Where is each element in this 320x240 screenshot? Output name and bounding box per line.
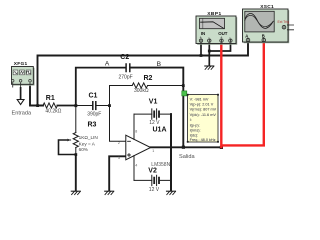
pin number 4 — [135, 163, 137, 167]
wire bode plotter IN- to ground — [208, 43, 210, 66]
svg-text:R3: R3 — [88, 121, 97, 128]
svg-text:I(rms):: I(rms): — [190, 129, 201, 133]
svg-text:B: B — [262, 33, 265, 38]
svg-text:3: 3 — [118, 156, 120, 160]
svg-text:R2: R2 — [144, 75, 153, 82]
wire op-amp output — [151, 146, 222, 148]
node label A — [105, 61, 110, 68]
wire non-inverting input to ground — [109, 156, 126, 190]
oscilloscope XSC1 — [243, 4, 295, 43]
capacitor C1 — [76, 102, 110, 110]
ground under R3 — [71, 191, 80, 194]
junction IN- jumper — [208, 50, 211, 53]
ground under bode plotter — [205, 66, 214, 69]
red wire bode OUT+ to output to scope B — [221, 43, 263, 148]
svg-text:Entrada: Entrada — [12, 111, 32, 117]
label R3 — [88, 121, 97, 128]
svg-text:I(p-p):: I(p-p): — [190, 123, 200, 127]
capacitor C2 — [126, 64, 130, 72]
wire inverting input — [110, 106, 126, 142]
svg-text:I:: I: — [190, 118, 192, 122]
svg-text:12 V: 12 V — [149, 120, 160, 126]
value C2 — [119, 74, 133, 80]
svg-text:60%: 60% — [79, 147, 88, 152]
node label B — [157, 61, 162, 68]
wire bode plotter OUT- jumper to IN- — [209, 43, 230, 52]
label U1A — [153, 126, 167, 133]
label Salida — [179, 154, 195, 160]
resistor R1 — [43, 103, 57, 108]
junction IN+ on input wire — [200, 54, 203, 57]
resistor R2 — [110, 83, 184, 106]
svg-text:B: B — [157, 61, 162, 68]
potentiometer R3 — [59, 106, 79, 155]
function generator XFG1 — [11, 61, 34, 87]
value R2 — [134, 88, 149, 94]
svg-text:390pF: 390pF — [87, 112, 101, 118]
svg-text:1: 1 — [152, 149, 154, 153]
value LM358N — [151, 162, 170, 168]
label C2 — [120, 54, 129, 61]
value V2 — [149, 187, 160, 193]
svg-text:V(p-p): 2.01 V: V(p-p): 2.01 V — [190, 103, 214, 107]
junction R2 right at node B — [182, 84, 185, 87]
svg-text:12 V: 12 V — [149, 187, 160, 193]
wire supply rail to ground — [170, 114, 172, 190]
svg-text:8: 8 — [135, 130, 137, 134]
svg-text:C2: C2 — [120, 54, 129, 61]
svg-text:V(rms): 807 mV: V(rms): 807 mV — [190, 108, 217, 112]
svg-text:R1: R1 — [46, 95, 55, 102]
battery V2 — [134, 175, 171, 185]
label V1 — [149, 98, 158, 105]
wire node A to C2 — [76, 68, 126, 106]
pin number 8 — [135, 130, 137, 134]
svg-text:2: 2 — [118, 141, 120, 145]
on-page connector Entrada — [12, 87, 32, 117]
svg-text:C1: C1 — [89, 93, 98, 100]
wire R1 to node A — [57, 105, 75, 107]
value C1 — [87, 112, 101, 118]
junction node A — [74, 104, 77, 107]
svg-text:I(dc):: I(dc): — [190, 134, 199, 138]
svg-text:Key = A: Key = A — [79, 142, 96, 147]
ground under non-inverting input — [105, 191, 114, 194]
wire bode plotter IN+ — [200, 43, 202, 56]
bode plotter XBP1 — [196, 11, 237, 45]
op-amp U1A — [126, 114, 151, 180]
label C1 — [89, 93, 98, 100]
svg-text:Ext Trig: Ext Trig — [278, 20, 290, 24]
wire XFG1 plus terminal to R1 — [30, 87, 43, 106]
measurement probe box — [187, 94, 219, 143]
label R1 — [46, 95, 55, 102]
label V2 — [148, 168, 157, 175]
label R2 — [144, 75, 153, 82]
svg-text:XFG1: XFG1 — [14, 61, 28, 67]
svg-text:V1: V1 — [149, 98, 158, 105]
junction R3 bottom — [75, 153, 78, 156]
svg-text:4: 4 — [135, 163, 137, 167]
battery V1 — [134, 109, 171, 119]
pin number 3 — [118, 156, 120, 160]
svg-text:Freq.: 48.0 kHz: Freq.: 48.0 kHz — [190, 138, 216, 142]
svg-text:V: -981 mV: V: -981 mV — [190, 97, 209, 101]
svg-text:Salida: Salida — [179, 154, 195, 160]
svg-text:U1A: U1A — [153, 126, 167, 133]
wire R3 to ground — [75, 155, 77, 191]
junction output to red wire — [220, 146, 223, 149]
pin number 2 — [118, 141, 120, 145]
measurement probe junction — [182, 91, 187, 96]
value R1 — [45, 108, 61, 114]
junction input node — [36, 104, 39, 107]
svg-text:A: A — [105, 61, 110, 68]
svg-text:V2: V2 — [148, 168, 157, 175]
wire input net: node to bode IN+ and scope A — [38, 43, 249, 106]
junction node B at output — [182, 146, 185, 149]
svg-text:300kΩ: 300kΩ — [134, 88, 149, 94]
ground under supply rail — [167, 191, 176, 194]
svg-text:XBP1: XBP1 — [207, 11, 222, 17]
pin number 1 — [152, 149, 154, 153]
svg-text:1KΩ_LIN: 1KΩ_LIN — [79, 135, 98, 140]
svg-text:V(dc): -11.6 mV: V(dc): -11.6 mV — [190, 113, 217, 117]
svg-text:XSC1: XSC1 — [260, 4, 274, 10]
svg-text:40.2kΩ: 40.2kΩ — [45, 108, 61, 114]
svg-text:270pF: 270pF — [119, 74, 133, 80]
value V1 — [149, 120, 160, 126]
junction C1 right / R2 / inverting input — [108, 104, 111, 107]
wire C2 to node B vertical — [131, 68, 184, 147]
value R3 — [79, 135, 98, 152]
